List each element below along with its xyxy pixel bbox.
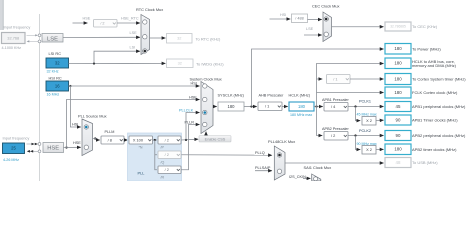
svg-text:180: 180 <box>228 104 236 109</box>
svg-text:X 100: X 100 <box>133 137 144 142</box>
svg-text:/ 2: / 2 <box>165 152 169 157</box>
svg-text:48: 48 <box>396 160 401 165</box>
svg-text:To RTC (KHz): To RTC (KHz) <box>196 36 221 41</box>
svg-text:RTC Clock Mux: RTC Clock Mux <box>136 7 163 12</box>
svg-text:/ 8: / 8 <box>108 137 112 142</box>
svg-text:PLLQ: PLLQ <box>255 151 265 155</box>
svg-text:PLLM: PLLM <box>105 130 115 134</box>
svg-text:180: 180 <box>298 104 306 109</box>
svg-text:APB2 timer clocks (MHz): APB2 timer clocks (MHz) <box>412 147 457 152</box>
svg-text:HSI: HSI <box>191 82 197 86</box>
svg-text:CEC Clock Mux: CEC Clock Mux <box>312 3 340 8</box>
svg-text:APB2 Prescaler: APB2 Prescaler <box>322 127 350 131</box>
svg-text:HSE: HSE <box>189 96 197 100</box>
svg-text:180: 180 <box>394 61 402 66</box>
svg-text:32: 32 <box>177 36 181 41</box>
svg-text:LSE: LSE <box>130 31 138 35</box>
svg-text:180: 180 <box>394 46 402 51</box>
svg-text:X 2: X 2 <box>366 147 372 152</box>
svg-text:To Power (MHz): To Power (MHz) <box>412 46 441 51</box>
svg-text:16: 16 <box>55 83 60 88</box>
svg-text:/Q: /Q <box>161 160 165 164</box>
svg-text:HSE_RTC: HSE_RTC <box>121 16 139 20</box>
svg-text:180: 180 <box>394 147 402 152</box>
svg-text:/ 2: / 2 <box>165 167 169 172</box>
svg-text:90: 90 <box>396 133 401 138</box>
svg-text:To CEC (KHz): To CEC (KHz) <box>412 24 438 29</box>
svg-text:To USB (MHz): To USB (MHz) <box>412 160 438 165</box>
svg-text:180: 180 <box>394 76 402 81</box>
svg-text:HCLK (MHz): HCLK (MHz) <box>289 94 311 98</box>
svg-text:/ 2: / 2 <box>100 22 104 26</box>
svg-text:32: 32 <box>55 60 60 65</box>
svg-text:32: 32 <box>178 61 182 66</box>
svg-text:25: 25 <box>11 146 16 151</box>
svg-text:PLL Source Mux: PLL Source Mux <box>78 114 107 119</box>
svg-text:PLL48CLK Mux: PLL48CLK Mux <box>268 139 295 144</box>
svg-text:PCLK1: PCLK1 <box>359 100 371 104</box>
svg-text:APB2 peripheral clocks (MHz): APB2 peripheral clocks (MHz) <box>412 133 466 138</box>
svg-text:To Cortex System timer (MHz): To Cortex System timer (MHz) <box>412 77 466 82</box>
svg-text:HSE: HSE <box>47 146 59 152</box>
svg-text:Input frequency: Input frequency <box>4 25 31 30</box>
svg-text:90: 90 <box>396 117 401 122</box>
svg-text:*N: *N <box>139 145 143 149</box>
svg-text:/ 2: / 2 <box>165 137 169 142</box>
svg-text:SYSCLK (MHz): SYSCLK (MHz) <box>218 94 245 98</box>
svg-text:AHB Prescaler: AHB Prescaler <box>259 94 285 98</box>
svg-text:32 KHz: 32 KHz <box>47 69 59 73</box>
svg-text:/P: /P <box>161 145 165 149</box>
svg-text:LSI: LSI <box>130 45 136 49</box>
svg-text:LSI RC: LSI RC <box>49 51 62 56</box>
svg-text:System Clock Mux: System Clock Mux <box>190 76 222 81</box>
svg-text:HSI: HSI <box>280 13 286 17</box>
svg-text:HSE: HSE <box>73 141 81 145</box>
svg-text:45 MHz max: 45 MHz max <box>357 112 377 116</box>
svg-text:LSE: LSE <box>306 27 314 31</box>
svg-text:HSI: HSI <box>72 123 78 127</box>
svg-text:FCLK Cortex clock (MHz): FCLK Cortex clock (MHz) <box>412 90 458 95</box>
svg-text:Enable CSS: Enable CSS <box>205 138 226 142</box>
svg-text:180 MHz max: 180 MHz max <box>290 113 312 117</box>
svg-text:HSI RC: HSI RC <box>49 75 62 80</box>
svg-text:X 2: X 2 <box>366 118 372 123</box>
svg-text:/ 1: / 1 <box>265 104 269 109</box>
svg-text:/ 2: / 2 <box>331 133 335 138</box>
svg-text:Input frequency: Input frequency <box>3 136 30 141</box>
svg-text:4-1000 KHz: 4-1000 KHz <box>2 46 22 50</box>
svg-text:APB1 Prescaler: APB1 Prescaler <box>322 98 350 102</box>
svg-text:16 MHz: 16 MHz <box>47 92 60 96</box>
svg-text:To IWDG (KHz): To IWDG (KHz) <box>196 61 224 66</box>
svg-text:180: 180 <box>394 90 402 95</box>
svg-text:PCLK2: PCLK2 <box>359 129 371 133</box>
svg-text:4-26 MHz: 4-26 MHz <box>3 158 19 162</box>
svg-text:45: 45 <box>396 104 401 109</box>
svg-text:APB1 Timer clocks (MHz): APB1 Timer clocks (MHz) <box>412 118 458 123</box>
svg-text:/R: /R <box>161 175 165 179</box>
svg-text:APB1 peripheral clocks (MHz): APB1 peripheral clocks (MHz) <box>412 104 466 109</box>
svg-text:32.786885: 32.786885 <box>390 25 406 29</box>
svg-text:/ 1: / 1 <box>333 76 337 81</box>
svg-text:HSE: HSE <box>83 16 91 20</box>
svg-text:SAI1 Clock Mux: SAI1 Clock Mux <box>304 165 332 170</box>
svg-text:LSE: LSE <box>47 36 58 42</box>
svg-text:32.768: 32.768 <box>7 35 19 40</box>
svg-text:/ 488: / 488 <box>295 17 303 21</box>
svg-text:PLLCLK: PLLCLK <box>179 109 194 113</box>
svg-text:PLL: PLL <box>138 171 146 176</box>
svg-text:memory and DMA (MHz): memory and DMA (MHz) <box>412 63 457 68</box>
svg-text:PLLSAIP: PLLSAIP <box>255 166 271 170</box>
